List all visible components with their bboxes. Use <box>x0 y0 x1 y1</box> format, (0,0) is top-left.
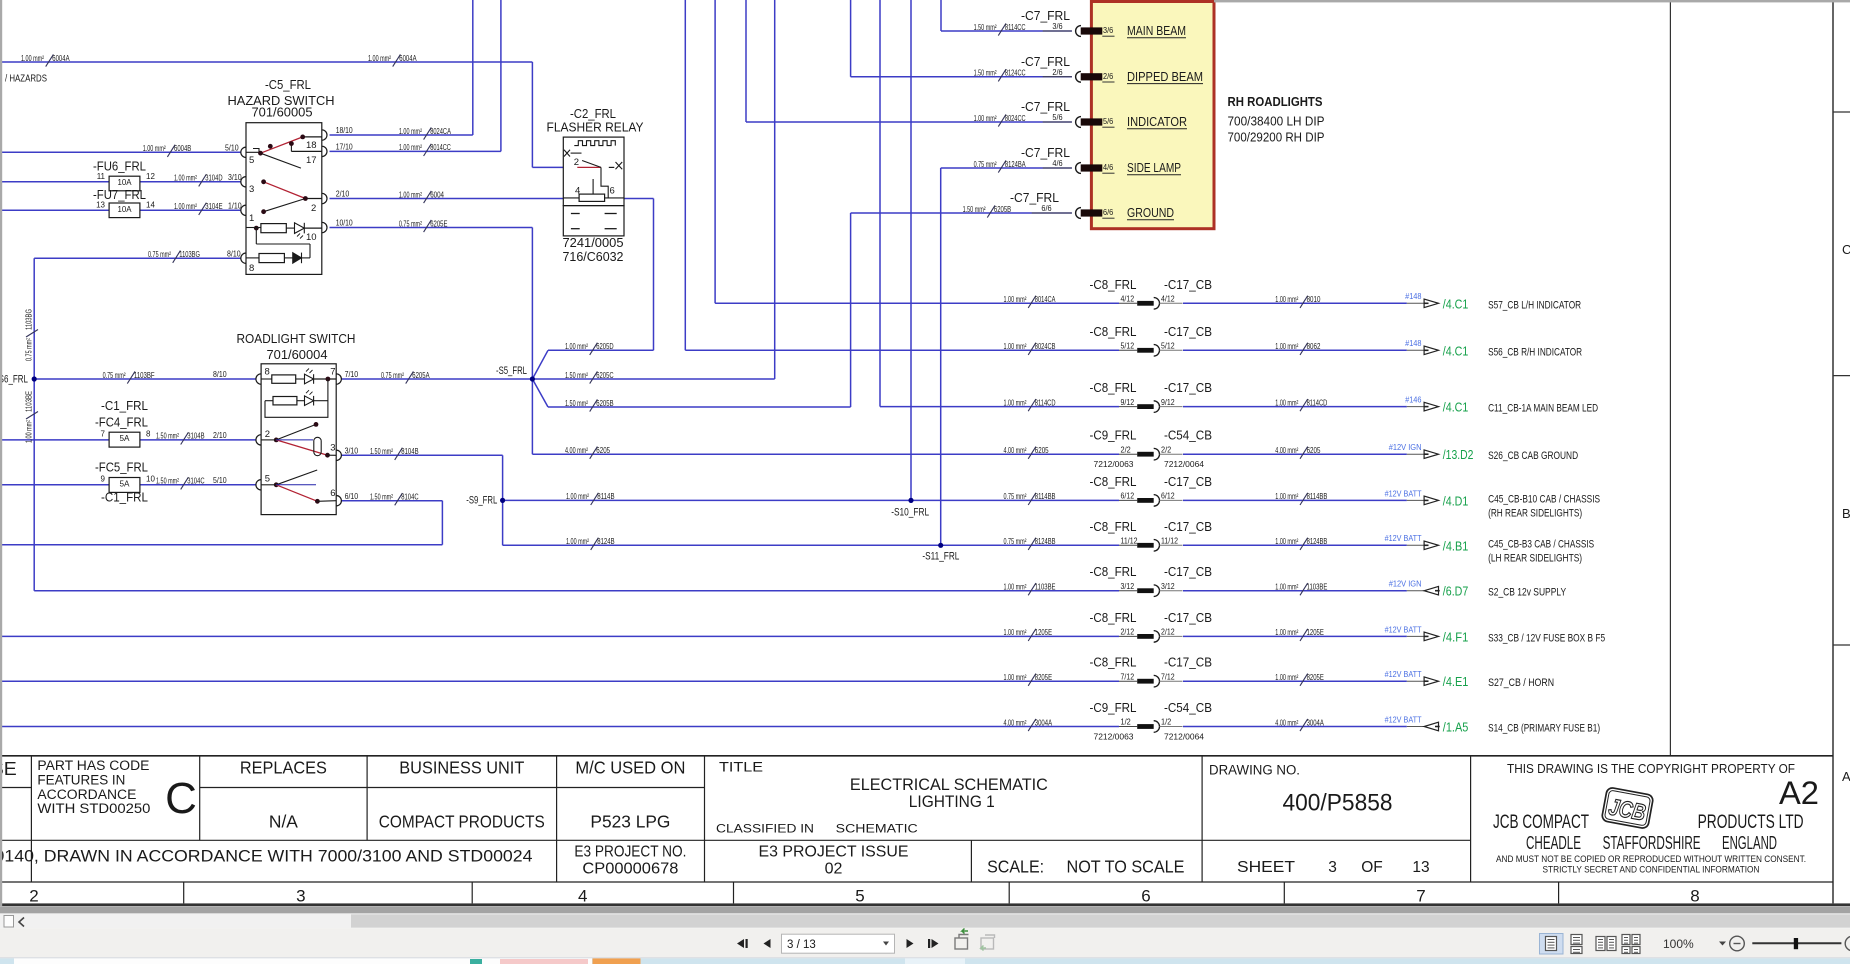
svg-text:1.00 mm²: 1.00 mm² <box>143 144 166 153</box>
svg-text:REPLACES: REPLACES <box>240 757 327 777</box>
svg-text:-C17_CB: -C17_CB <box>1164 611 1212 625</box>
svg-text:M/C USED ON: M/C USED ON <box>575 757 685 777</box>
svg-text:6: 6 <box>610 186 615 197</box>
svg-text:(LH REAR SIDELIGHTS): (LH REAR SIDELIGHTS) <box>1488 552 1582 564</box>
svg-text:-C7_FRL: -C7_FRL <box>1010 191 1059 205</box>
svg-text:4.00 mm²: 4.00 mm² <box>565 446 588 455</box>
svg-text:1.50 mm²: 1.50 mm² <box>565 371 588 380</box>
svg-text:1103BE: 1103BE <box>25 391 34 412</box>
svg-text:ENGLAND: ENGLAND <box>1722 833 1777 853</box>
svg-text:#12V BATT: #12V BATT <box>1385 489 1422 498</box>
svg-text:FLASHER RELAY: FLASHER RELAY <box>547 121 645 135</box>
svg-text:FEATURES IN: FEATURES IN <box>37 772 125 787</box>
svg-text:ACCORDANCE: ACCORDANCE <box>37 787 136 802</box>
svg-text:9/12: 9/12 <box>1121 398 1135 407</box>
svg-text:0.75 mm²: 0.75 mm² <box>974 160 997 169</box>
svg-text:10: 10 <box>146 475 155 484</box>
svg-text:6205: 6205 <box>1035 446 1049 455</box>
svg-text:-C7_FRL: -C7_FRL <box>1021 9 1070 23</box>
svg-text:1.50 mm²: 1.50 mm² <box>156 432 179 441</box>
svg-text:-C8_FRL: -C8_FRL <box>1090 475 1137 489</box>
svg-text:4: 4 <box>578 887 587 906</box>
svg-text:CLASSIFIED IN: CLASSIFIED IN <box>716 822 814 836</box>
svg-text:-S6_FRL: -S6_FRL <box>0 374 28 386</box>
svg-text:-C8_FRL: -C8_FRL <box>1090 278 1137 292</box>
svg-text:RH ROADLIGHTS: RH ROADLIGHTS <box>1228 95 1323 109</box>
svg-text:8: 8 <box>249 263 254 274</box>
svg-text:1205E: 1205E <box>1035 628 1052 637</box>
svg-text:7: 7 <box>330 367 335 378</box>
svg-text:3104D: 3104D <box>205 174 222 183</box>
svg-text:E3 PROJECT ISSUE: E3 PROJECT ISSUE <box>759 844 909 861</box>
svg-text:/4.B1: /4.B1 <box>1443 539 1469 553</box>
svg-text:DIPPED BEAM: DIPPED BEAM <box>1127 70 1203 84</box>
svg-text:1.00 mm²: 1.00 mm² <box>1004 342 1027 351</box>
svg-text:/ HAZARDS: / HAZARDS <box>5 73 47 85</box>
svg-text:3004A: 3004A <box>1035 718 1053 727</box>
svg-text:1.00 mm²: 1.00 mm² <box>1275 492 1298 501</box>
svg-text:8114BB: 8114BB <box>1307 492 1328 501</box>
svg-text:7212/0064: 7212/0064 <box>1164 460 1205 469</box>
svg-text:2/6: 2/6 <box>1052 68 1063 77</box>
svg-text:1.00 mm²: 1.00 mm² <box>1004 628 1027 637</box>
svg-text:4.00 mm²: 4.00 mm² <box>1004 446 1027 455</box>
svg-text:8205E: 8205E <box>1035 673 1052 682</box>
svg-text:3: 3 <box>330 443 335 454</box>
svg-text:2: 2 <box>29 887 38 906</box>
svg-text:STRICTLY SECRET AND CONFIDENTI: STRICTLY SECRET AND CONFIDENTIAL INFORMA… <box>1543 865 1760 875</box>
svg-text:A2: A2 <box>1779 775 1819 811</box>
svg-text:6/6: 6/6 <box>1103 208 1114 217</box>
svg-text:1: 1 <box>249 213 254 224</box>
svg-text:3/6: 3/6 <box>1052 22 1063 31</box>
svg-text:6205D: 6205D <box>596 342 613 351</box>
svg-text:-C7_FRL: -C7_FRL <box>1021 55 1070 69</box>
svg-text:8124B: 8124B <box>597 537 614 546</box>
svg-text:S2_CB 12v SUPPLY: S2_CB 12v SUPPLY <box>1488 587 1567 599</box>
svg-text:8114BB: 8114BB <box>1035 492 1056 501</box>
svg-text:-C8_FRL: -C8_FRL <box>1090 381 1137 395</box>
svg-text:8124BB: 8124BB <box>1035 537 1056 546</box>
svg-text:N/A: N/A <box>269 812 298 832</box>
svg-text:2: 2 <box>574 157 579 168</box>
svg-text:/4.C1: /4.C1 <box>1443 401 1469 415</box>
svg-text:#12V IGN: #12V IGN <box>1389 443 1422 452</box>
svg-text:-S5_FRL: -S5_FRL <box>496 365 527 377</box>
svg-text:6004A: 6004A <box>399 54 417 63</box>
svg-text:CP00000678: CP00000678 <box>582 860 678 877</box>
svg-text:PART HAS CODE: PART HAS CODE <box>37 758 149 773</box>
svg-text:AND MUST NOT BE COPIED OR REPR: AND MUST NOT BE COPIED OR REPRODUCED WIT… <box>1496 854 1806 864</box>
svg-text:701/60004: 701/60004 <box>267 348 328 362</box>
svg-text:/6.D7: /6.D7 <box>1443 585 1469 599</box>
svg-text:1.00 mm²: 1.00 mm² <box>566 492 589 501</box>
svg-text:3104C: 3104C <box>187 477 204 486</box>
svg-text:/4.E1: /4.E1 <box>1443 675 1469 689</box>
svg-text:6205A: 6205A <box>412 371 430 380</box>
svg-text:7212/0063: 7212/0063 <box>1094 733 1135 742</box>
svg-text:10: 10 <box>306 232 317 243</box>
svg-text:S26_CB CAB GROUND: S26_CB CAB GROUND <box>1488 450 1578 462</box>
svg-text:3: 3 <box>1328 859 1337 876</box>
svg-text:8205E: 8205E <box>1307 673 1324 682</box>
svg-text:#148: #148 <box>1405 339 1422 348</box>
svg-text:MAIN BEAM: MAIN BEAM <box>1127 24 1186 38</box>
svg-text:1.00 mm²: 1.00 mm² <box>399 127 422 136</box>
svg-text:OF: OF <box>1361 859 1383 876</box>
svg-text:3/12: 3/12 <box>1121 582 1135 591</box>
svg-text:-C7_FRL: -C7_FRL <box>1021 146 1070 160</box>
svg-text:PRODUCTS LTD: PRODUCTS LTD <box>1698 812 1804 833</box>
svg-text:SIDE LAMP: SIDE LAMP <box>1127 161 1181 175</box>
svg-text:P523 LPG: P523 LPG <box>590 812 670 832</box>
svg-text:8/10: 8/10 <box>213 370 227 379</box>
svg-text:2/12: 2/12 <box>1121 628 1135 637</box>
svg-text:1/2: 1/2 <box>1121 718 1132 727</box>
svg-text:5A: 5A <box>120 480 131 489</box>
svg-text:-C8_FRL: -C8_FRL <box>1090 565 1137 579</box>
svg-text:2: 2 <box>311 203 316 214</box>
svg-text:8/10: 8/10 <box>227 249 241 258</box>
svg-text:/4.C1: /4.C1 <box>1443 297 1469 311</box>
svg-text:3104B: 3104B <box>187 432 204 441</box>
svg-text:0.75 mm²: 0.75 mm² <box>1004 492 1027 501</box>
svg-text:1.00 mm²: 1.00 mm² <box>399 190 422 199</box>
svg-text:701/60005: 701/60005 <box>252 106 313 120</box>
svg-text:5: 5 <box>249 155 254 166</box>
svg-text:BUSINESS UNIT: BUSINESS UNIT <box>399 757 524 777</box>
svg-text:10A: 10A <box>118 205 133 214</box>
svg-text:2: 2 <box>265 429 270 440</box>
svg-text:11: 11 <box>97 172 106 181</box>
svg-text:7212/0063: 7212/0063 <box>1094 460 1135 469</box>
svg-text:6/10: 6/10 <box>345 492 359 501</box>
svg-text:-C1_FRL: -C1_FRL <box>101 491 148 505</box>
svg-text:8024CA: 8024CA <box>430 127 451 136</box>
svg-text:3/12: 3/12 <box>1161 582 1175 591</box>
svg-text:-C54_CB: -C54_CB <box>1164 701 1212 715</box>
svg-text:100%: 100% <box>1663 937 1694 951</box>
svg-text:1/2: 1/2 <box>1161 718 1172 727</box>
svg-text:5A: 5A <box>120 434 131 443</box>
svg-text:716/C6032: 716/C6032 <box>563 250 624 264</box>
svg-text:0.75 mm²: 0.75 mm² <box>103 371 126 380</box>
svg-text:7/12: 7/12 <box>1121 672 1135 681</box>
svg-text:3104E: 3104E <box>205 202 222 211</box>
svg-text:700/38400 LH DIP: 700/38400 LH DIP <box>1228 115 1325 129</box>
svg-text:#148: #148 <box>1405 292 1422 301</box>
svg-text:3/10: 3/10 <box>228 173 242 182</box>
svg-text:1.00 mm²: 1.00 mm² <box>1004 583 1027 592</box>
svg-text:1.50 mm²: 1.50 mm² <box>370 493 393 502</box>
svg-text:1103BE: 1103BE <box>1035 583 1056 592</box>
svg-text:8114CC: 8114CC <box>1005 23 1026 32</box>
svg-text:SHEET: SHEET <box>1237 859 1296 876</box>
svg-text:11/12: 11/12 <box>1121 537 1138 546</box>
svg-text:17/10: 17/10 <box>336 143 353 152</box>
svg-text:6004: 6004 <box>430 190 444 199</box>
svg-text:C: C <box>165 774 197 823</box>
svg-text:/4.F1: /4.F1 <box>1443 630 1469 644</box>
svg-text:13: 13 <box>1412 859 1429 876</box>
svg-text:02: 02 <box>825 860 843 877</box>
svg-text:C45_CB-B10 CAB / CHASSIS: C45_CB-B10 CAB / CHASSIS <box>1488 493 1600 505</box>
svg-text:GROUND: GROUND <box>1127 206 1174 220</box>
svg-text:6205E: 6205E <box>430 219 447 228</box>
svg-text:-C17_CB: -C17_CB <box>1164 565 1212 579</box>
svg-text:-FC4_FRL: -FC4_FRL <box>95 416 148 430</box>
svg-text:1.00 mm²: 1.00 mm² <box>1275 537 1298 546</box>
svg-text:8010: 8010 <box>1307 295 1321 304</box>
svg-text:-FC5_FRL: -FC5_FRL <box>95 461 148 475</box>
svg-text:1.00 mm²: 1.00 mm² <box>1004 295 1027 304</box>
svg-text:-C9_FRL: -C9_FRL <box>1090 429 1137 443</box>
svg-text:#12V BATT: #12V BATT <box>1385 534 1422 543</box>
svg-text:9: 9 <box>101 475 106 484</box>
svg-text:1.00 mm²: 1.00 mm² <box>25 420 34 443</box>
svg-text:6205B: 6205B <box>994 205 1011 214</box>
svg-text:-C7_FRL: -C7_FRL <box>1021 100 1070 114</box>
svg-text:5/6: 5/6 <box>1052 113 1063 122</box>
svg-text:5/12: 5/12 <box>1121 342 1135 351</box>
svg-text:8014CC: 8014CC <box>430 143 451 152</box>
svg-text:3 / 13: 3 / 13 <box>787 939 816 951</box>
svg-text:-C17_CB: -C17_CB <box>1164 381 1212 395</box>
svg-text:0.75 mm²: 0.75 mm² <box>148 250 171 259</box>
svg-text:ELECTRICAL SCHEMATIC: ELECTRICAL SCHEMATIC <box>850 776 1048 794</box>
svg-text:-C1_FRL: -C1_FRL <box>101 399 148 413</box>
svg-text:#146: #146 <box>1405 396 1422 405</box>
svg-text:-C17_CB: -C17_CB <box>1164 475 1212 489</box>
svg-text:2/12: 2/12 <box>1161 628 1175 637</box>
svg-text:(RH REAR SIDELIGHTS): (RH REAR SIDELIGHTS) <box>1488 507 1582 519</box>
svg-text:3: 3 <box>296 887 305 906</box>
svg-text:4.00 mm²: 4.00 mm² <box>1275 718 1298 727</box>
svg-text:A: A <box>1842 769 1850 784</box>
svg-text:THIS DRAWING IS THE COPYRIGHT: THIS DRAWING IS THE COPYRIGHT PROPERTY O… <box>1507 762 1795 776</box>
svg-text:C: C <box>1842 242 1850 257</box>
svg-text:8124CC: 8124CC <box>1005 69 1026 78</box>
svg-text:3: 3 <box>249 184 254 195</box>
svg-text:-C8_FRL: -C8_FRL <box>1090 611 1137 625</box>
svg-text:1.00 mm²: 1.00 mm² <box>1275 295 1298 304</box>
svg-text:4.00 mm²: 4.00 mm² <box>1275 446 1298 455</box>
svg-text:2/2: 2/2 <box>1161 445 1172 454</box>
svg-text:-C54_CB: -C54_CB <box>1164 429 1212 443</box>
svg-text:8: 8 <box>265 367 270 378</box>
svg-text:WITH STD00250: WITH STD00250 <box>37 801 150 816</box>
svg-text:-S9_FRL: -S9_FRL <box>466 495 497 507</box>
svg-text:#12V IGN: #12V IGN <box>1389 580 1422 589</box>
svg-text:1.00 mm²: 1.00 mm² <box>1275 673 1298 682</box>
svg-text:1.00 mm²: 1.00 mm² <box>399 143 422 152</box>
svg-text:8024CB: 8024CB <box>1035 342 1056 351</box>
svg-text:7/12: 7/12 <box>1161 672 1175 681</box>
svg-text:5/10: 5/10 <box>225 144 239 153</box>
svg-text:SCALE:: SCALE: <box>987 856 1044 876</box>
svg-text:5: 5 <box>855 887 864 906</box>
svg-text:6004B: 6004B <box>174 144 191 153</box>
svg-text:5: 5 <box>265 474 270 485</box>
svg-text:6205: 6205 <box>1307 446 1321 455</box>
svg-text:INDICATOR: INDICATOR <box>1127 115 1187 129</box>
svg-text:1.00 mm²: 1.00 mm² <box>368 54 391 63</box>
svg-text:S27_CB / HORN: S27_CB / HORN <box>1488 677 1554 689</box>
svg-text:1.00 mm²: 1.00 mm² <box>565 342 588 351</box>
svg-text:S14_CB (PRIMARY FUSE B1): S14_CB (PRIMARY FUSE B1) <box>1488 723 1600 735</box>
svg-text:-C9_FRL: -C9_FRL <box>1090 701 1137 715</box>
svg-text:7241/0005: 7241/0005 <box>563 236 624 250</box>
svg-text:-C17_CB: -C17_CB <box>1164 520 1212 534</box>
svg-text:6205C: 6205C <box>596 371 613 380</box>
svg-text:7/10: 7/10 <box>345 370 359 379</box>
svg-text:1103BF: 1103BF <box>134 371 155 380</box>
svg-text:400/P5858: 400/P5858 <box>1283 790 1393 817</box>
svg-text:700/29200 RH DIP: 700/29200 RH DIP <box>1228 131 1325 145</box>
svg-text:LIGHTING 1: LIGHTING 1 <box>909 793 995 811</box>
svg-text:1103BG: 1103BG <box>179 250 200 259</box>
svg-text:-C8_FRL: -C8_FRL <box>1090 325 1137 339</box>
svg-text:17: 17 <box>306 155 317 166</box>
svg-text:5/10: 5/10 <box>213 476 227 485</box>
svg-text:COMPACT PRODUCTS: COMPACT PRODUCTS <box>379 812 545 832</box>
svg-text:18/10: 18/10 <box>336 126 353 135</box>
svg-text:7212/0064: 7212/0064 <box>1164 733 1205 742</box>
svg-text:1.00 mm²: 1.00 mm² <box>21 54 44 63</box>
svg-text:1.50 mm²: 1.50 mm² <box>974 23 997 32</box>
svg-text:0.75 mm²: 0.75 mm² <box>1004 537 1027 546</box>
svg-text:1.50 mm²: 1.50 mm² <box>156 477 179 486</box>
svg-text:8114CD: 8114CD <box>1035 398 1056 407</box>
svg-text:1.00 mm²: 1.00 mm² <box>1004 398 1027 407</box>
svg-text:8062: 8062 <box>1307 342 1321 351</box>
svg-text:/4.D1: /4.D1 <box>1443 494 1469 508</box>
svg-text:1.00 mm²: 1.00 mm² <box>174 174 197 183</box>
svg-text:2/10: 2/10 <box>213 431 227 440</box>
svg-text:1103BE: 1103BE <box>1307 583 1328 592</box>
svg-text:B: B <box>1842 506 1850 521</box>
svg-text:1205E: 1205E <box>1307 628 1324 637</box>
svg-text:1.50 mm²: 1.50 mm² <box>963 205 986 214</box>
svg-text:SCHEMATIC: SCHEMATIC <box>836 822 918 836</box>
svg-text:6: 6 <box>1141 887 1150 906</box>
svg-text:1.50 mm²: 1.50 mm² <box>370 447 393 456</box>
svg-text:C45_CB-B3 CAB / CHASSIS: C45_CB-B3 CAB / CHASSIS <box>1488 538 1594 550</box>
svg-text:6: 6 <box>330 488 335 499</box>
svg-text:4.00 mm²: 4.00 mm² <box>1004 718 1027 727</box>
svg-text:4/12: 4/12 <box>1121 295 1135 304</box>
svg-text:4/6: 4/6 <box>1103 163 1114 172</box>
svg-text:1.00 mm²: 1.00 mm² <box>1275 342 1298 351</box>
svg-text:4/6: 4/6 <box>1052 159 1063 168</box>
svg-text:3/6: 3/6 <box>1103 26 1114 35</box>
svg-text:2/6: 2/6 <box>1103 72 1114 81</box>
svg-text:5/12: 5/12 <box>1161 342 1175 351</box>
svg-text:ROADLIGHT SWITCH: ROADLIGHT SWITCH <box>237 332 356 346</box>
svg-text:2/2: 2/2 <box>1121 445 1132 454</box>
svg-text:10A: 10A <box>118 178 133 187</box>
svg-text:-C17_CB: -C17_CB <box>1164 325 1212 339</box>
svg-text:8104B: 8104B <box>401 447 418 456</box>
svg-text:12: 12 <box>146 172 155 181</box>
svg-text:#12V BATT: #12V BATT <box>1385 625 1422 634</box>
svg-text:8: 8 <box>1690 887 1699 906</box>
svg-text:7: 7 <box>1416 887 1425 906</box>
svg-text:10/10: 10/10 <box>336 219 353 228</box>
svg-text:9/12: 9/12 <box>1161 398 1175 407</box>
svg-text:6205B: 6205B <box>596 399 613 408</box>
svg-text:8104C: 8104C <box>401 493 418 502</box>
svg-text:-S10_FRL: -S10_FRL <box>891 507 929 519</box>
svg-text:-C8_FRL: -C8_FRL <box>1090 656 1137 670</box>
svg-text:S57_CB L/H INDICATOR: S57_CB L/H INDICATOR <box>1488 299 1581 311</box>
svg-text:S33_CB / 12V FUSE BOX B F5: S33_CB / 12V FUSE BOX B F5 <box>1488 632 1605 644</box>
svg-text:#12V BATT: #12V BATT <box>1385 715 1422 724</box>
svg-text:1.00 mm²: 1.00 mm² <box>974 114 997 123</box>
svg-text:-S11_FRL: -S11_FRL <box>922 551 959 563</box>
svg-text:6/12: 6/12 <box>1161 492 1175 501</box>
svg-text:1.00 mm²: 1.00 mm² <box>1275 583 1298 592</box>
svg-text:-C17_CB: -C17_CB <box>1164 656 1212 670</box>
svg-text:8124BA: 8124BA <box>1005 160 1026 169</box>
svg-text:6/12: 6/12 <box>1121 492 1135 501</box>
svg-text:E3 PROJECT NO.: E3 PROJECT NO. <box>574 844 686 861</box>
svg-text:7: 7 <box>101 430 106 439</box>
svg-text:8: 8 <box>146 430 151 439</box>
svg-text:0.75 mm²: 0.75 mm² <box>399 219 422 228</box>
svg-text:1.00 mm²: 1.00 mm² <box>1275 628 1298 637</box>
svg-text:2/10: 2/10 <box>336 190 350 199</box>
svg-text:3004A: 3004A <box>1307 718 1325 727</box>
svg-text:18: 18 <box>306 140 317 151</box>
svg-text:STAFFORDSHIRE: STAFFORDSHIRE <box>1603 833 1701 853</box>
svg-text:-C2_FRL: -C2_FRL <box>570 107 616 121</box>
svg-text:/1.A5: /1.A5 <box>1443 721 1469 735</box>
svg-text:C11_CB-1A MAIN BEAM LED: C11_CB-1A MAIN BEAM LED <box>1488 403 1598 415</box>
svg-text:8124BB: 8124BB <box>1307 537 1328 546</box>
svg-text:S56_CB R/H INDICATOR: S56_CB R/H INDICATOR <box>1488 346 1582 358</box>
svg-text:6/6: 6/6 <box>1041 204 1052 213</box>
svg-text:1.50 mm²: 1.50 mm² <box>974 69 997 78</box>
svg-text:5/6: 5/6 <box>1103 117 1114 126</box>
svg-text:1103BG: 1103BG <box>25 309 34 330</box>
svg-text:#12V BATT: #12V BATT <box>1385 670 1422 679</box>
svg-text:6205: 6205 <box>596 446 610 455</box>
svg-text:8024CC: 8024CC <box>1005 114 1026 123</box>
svg-text:SE: SE <box>0 758 17 779</box>
svg-text:-C8_FRL: -C8_FRL <box>1090 520 1137 534</box>
svg-text:13: 13 <box>96 201 105 210</box>
svg-text:8114B: 8114B <box>597 492 614 501</box>
svg-text:-C17_CB: -C17_CB <box>1164 278 1212 292</box>
svg-text:6004A: 6004A <box>52 54 70 63</box>
svg-text:1.00 mm²: 1.00 mm² <box>1004 673 1027 682</box>
svg-text:NOT TO SCALE: NOT TO SCALE <box>1067 856 1185 876</box>
svg-text:8114CD: 8114CD <box>1307 398 1328 407</box>
svg-text:11/12: 11/12 <box>1161 537 1178 546</box>
svg-text:0.75 mm²: 0.75 mm² <box>25 338 34 361</box>
svg-text:JCB COMPACT: JCB COMPACT <box>1493 812 1589 833</box>
svg-text:-C5_FRL: -C5_FRL <box>265 78 311 92</box>
svg-text:4/12: 4/12 <box>1161 295 1175 304</box>
svg-text:CHEADLE: CHEADLE <box>1526 833 1581 853</box>
svg-text:1.00 mm²: 1.00 mm² <box>174 202 197 211</box>
svg-text:1.00 mm²: 1.00 mm² <box>1275 398 1298 407</box>
svg-text:TITLE: TITLE <box>719 759 763 774</box>
svg-text:0.75 mm²: 0.75 mm² <box>381 371 404 380</box>
svg-text:8014CA: 8014CA <box>1035 295 1056 304</box>
svg-text:1.00 mm²: 1.00 mm² <box>566 537 589 546</box>
